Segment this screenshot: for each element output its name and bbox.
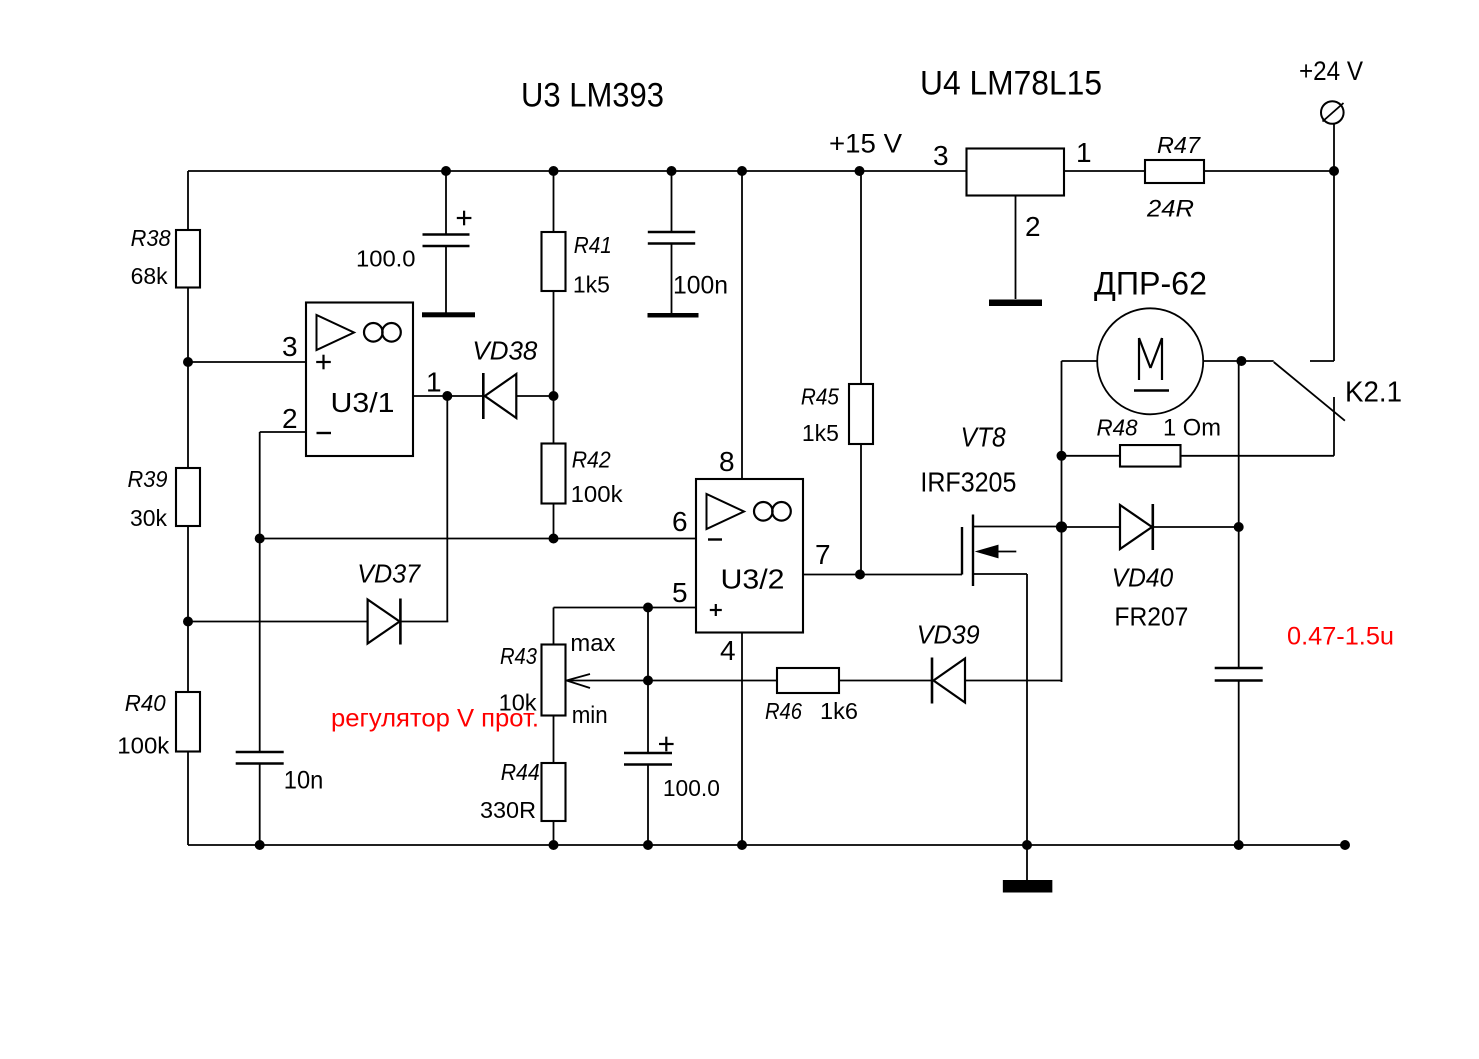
svg-text:2: 2: [282, 403, 298, 434]
svg-text:3: 3: [933, 140, 949, 171]
svg-text:U3/1: U3/1: [331, 387, 395, 418]
svg-text:VD38: VD38: [472, 336, 538, 366]
svg-text:VT8: VT8: [961, 422, 1006, 453]
svg-text:100.0: 100.0: [356, 246, 416, 272]
svg-text:1k5: 1k5: [802, 420, 839, 446]
svg-text:1k6: 1k6: [820, 698, 858, 724]
svg-text:R47: R47: [1157, 132, 1201, 158]
svg-text:U3/2: U3/2: [721, 564, 785, 595]
svg-text:R48: R48: [1097, 415, 1138, 441]
svg-text:1k5: 1k5: [573, 272, 610, 298]
svg-text:8: 8: [719, 446, 735, 477]
svg-text:R39: R39: [128, 466, 168, 492]
svg-text:R40: R40: [125, 690, 166, 716]
svg-text:2: 2: [1025, 211, 1041, 242]
svg-text:min: min: [572, 702, 608, 729]
svg-text:VD40: VD40: [1112, 563, 1174, 593]
svg-text:7: 7: [815, 539, 831, 570]
svg-text:68k: 68k: [131, 263, 168, 289]
svg-text:max: max: [570, 630, 615, 657]
svg-text:U3 LM393: U3 LM393: [521, 77, 664, 115]
svg-text:ДПР-62: ДПР-62: [1094, 266, 1207, 302]
svg-text:R46: R46: [765, 698, 802, 724]
svg-text:U4 LM78L15: U4 LM78L15: [920, 65, 1102, 103]
svg-text:4: 4: [720, 635, 736, 666]
svg-text:1: 1: [1076, 137, 1092, 168]
svg-text:3: 3: [282, 331, 298, 362]
svg-text:R45: R45: [801, 384, 839, 410]
svg-text:R44: R44: [501, 759, 540, 785]
svg-text:24R: 24R: [1146, 196, 1194, 223]
svg-text:регулятор V прот.: регулятор V прот.: [331, 705, 539, 733]
svg-text:VD37: VD37: [357, 559, 421, 589]
svg-text:1 Om: 1 Om: [1163, 415, 1221, 442]
svg-text:IRF3205: IRF3205: [920, 467, 1016, 498]
svg-text:VD39: VD39: [917, 620, 980, 650]
svg-text:10n: 10n: [284, 767, 324, 795]
svg-text:330R: 330R: [480, 797, 536, 823]
svg-text:R43: R43: [500, 643, 537, 669]
svg-text:R38: R38: [131, 225, 171, 251]
svg-text:5: 5: [672, 577, 688, 608]
svg-text:+15 V: +15 V: [829, 129, 902, 159]
svg-text:R41: R41: [574, 232, 612, 258]
svg-text:100.0: 100.0: [663, 775, 720, 801]
svg-text:0.47-1.5u: 0.47-1.5u: [1287, 623, 1394, 651]
svg-text:FR207: FR207: [1114, 602, 1188, 632]
svg-text:+24 V: +24 V: [1299, 56, 1363, 86]
svg-text:R42: R42: [572, 447, 611, 473]
svg-text:K2.1: K2.1: [1345, 377, 1402, 409]
svg-text:30k: 30k: [130, 505, 167, 531]
svg-text:6: 6: [672, 506, 688, 537]
svg-text:1: 1: [426, 367, 442, 398]
svg-text:100k: 100k: [571, 481, 624, 507]
svg-text:100k: 100k: [117, 733, 170, 759]
svg-text:100n: 100n: [673, 272, 728, 300]
